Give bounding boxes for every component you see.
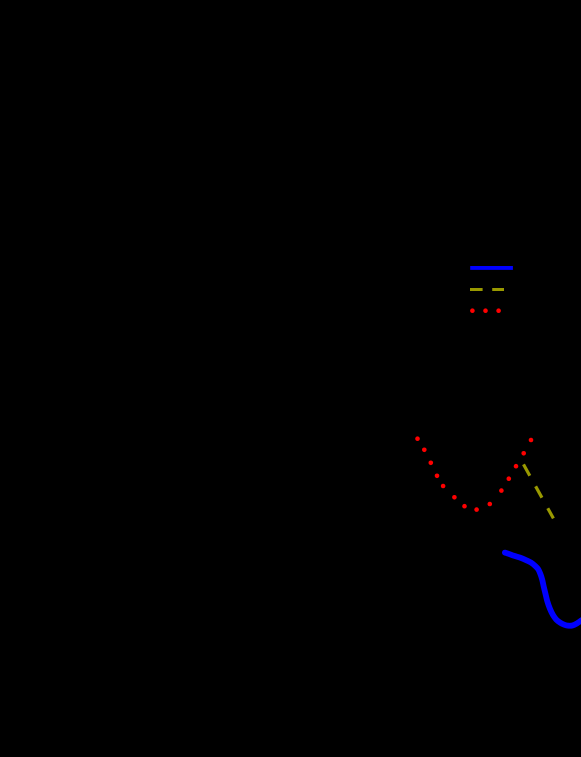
legend blue solid line swatch <box>470 266 513 270</box>
blue thick sigmoid curve <box>505 553 581 626</box>
red dotted curve (parabola-shaped data series) <box>415 436 533 512</box>
legend olive dashed line swatch <box>470 288 504 291</box>
olive dashed straight line segment <box>524 464 554 518</box>
legend red dotted line swatch <box>470 308 501 313</box>
